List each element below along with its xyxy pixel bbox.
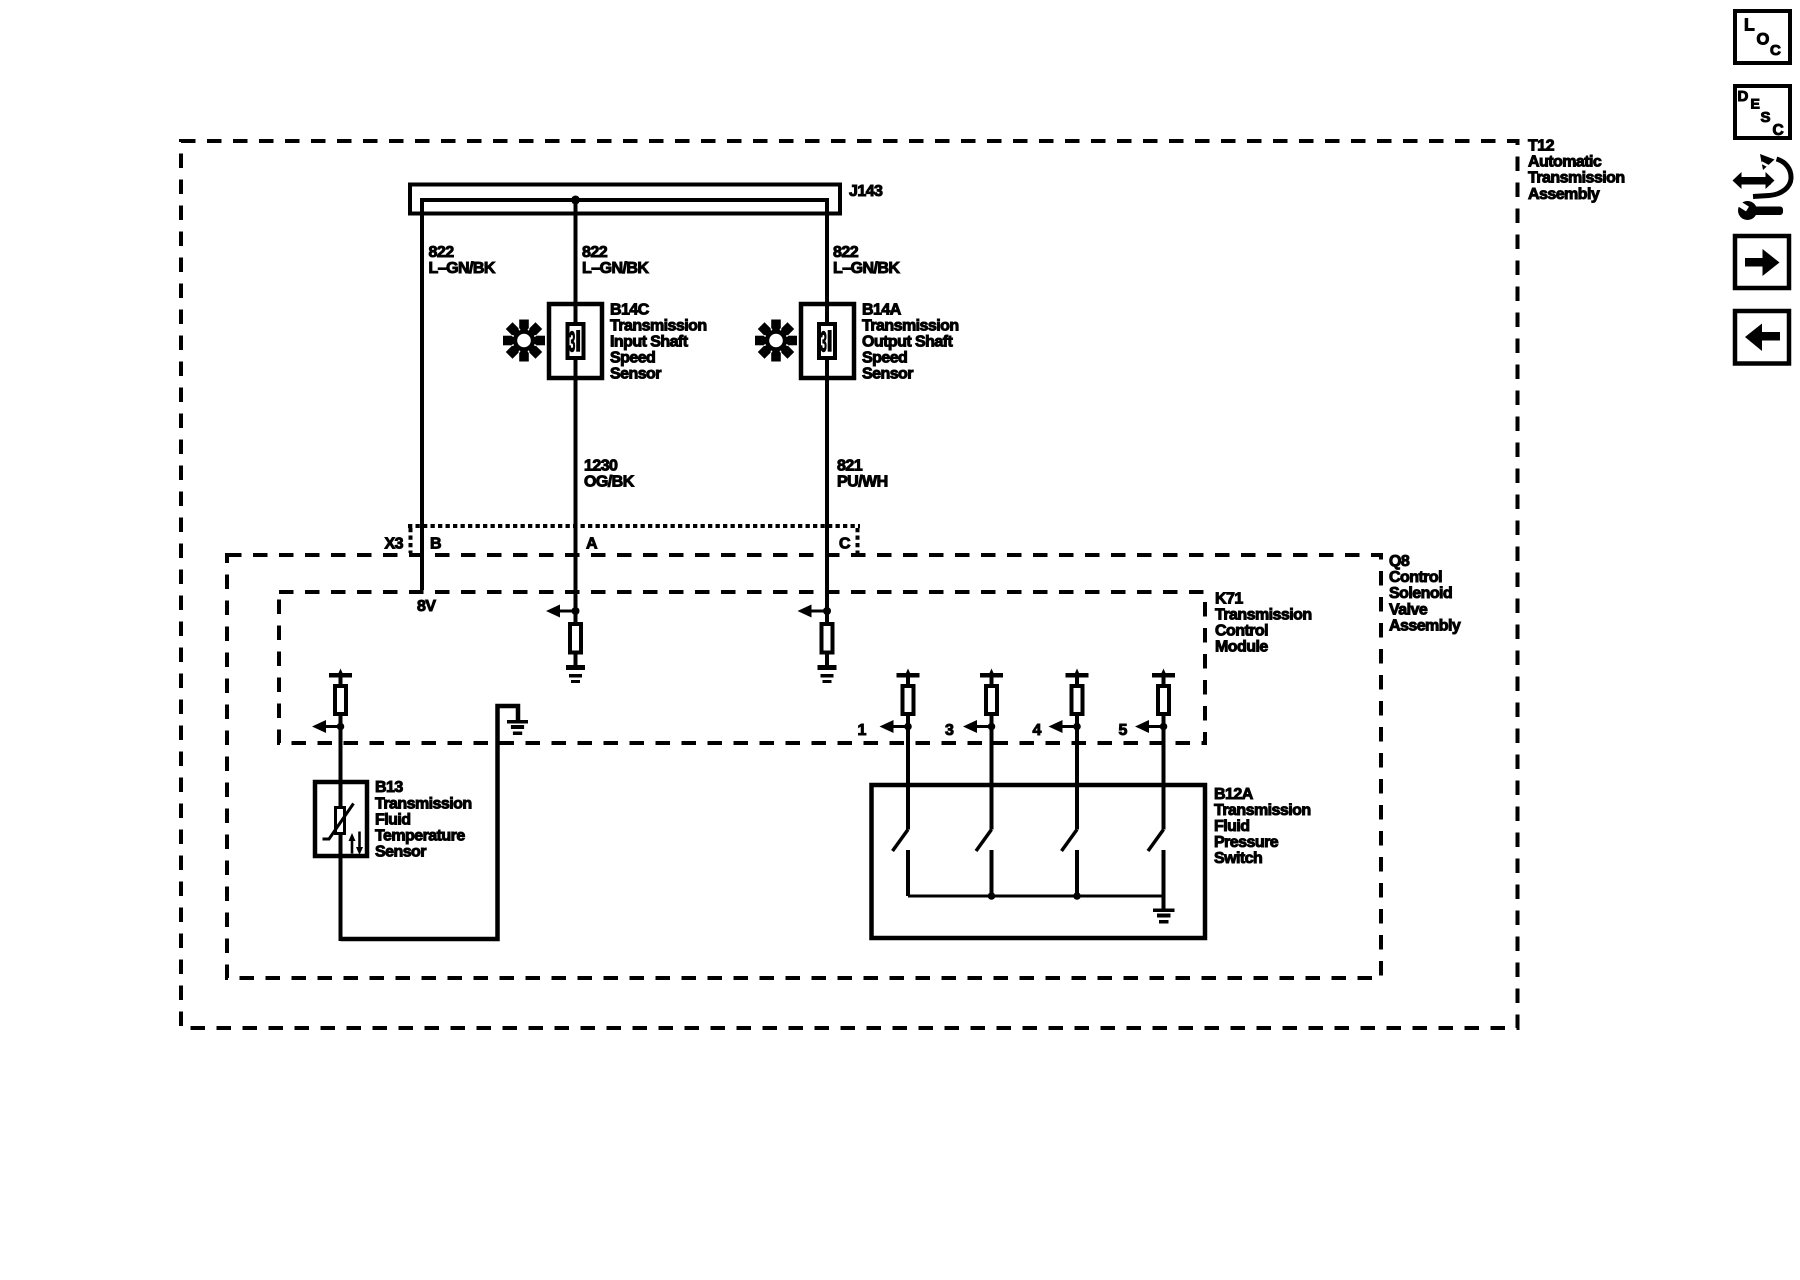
switch blade for pin 3 bbox=[976, 830, 992, 852]
up arrowhead bbox=[337, 669, 345, 678]
B13 Transmission Fluid Temperature Sensor box bbox=[315, 782, 367, 856]
forward navigation box (right arrow) bbox=[1735, 236, 1789, 288]
wire through B13 bbox=[339, 782, 343, 941]
B12A ground stub bbox=[1162, 896, 1166, 909]
wire from TCM pin 4 to B12A switch bbox=[1075, 727, 1079, 830]
wire bar-to-junction bbox=[1162, 678, 1166, 727]
junction dot bbox=[1160, 723, 1168, 731]
X3 connector right stub bbox=[856, 528, 860, 553]
X3 in-line connector dotted line bbox=[408, 524, 860, 528]
switch lower contact wire pin 5 bbox=[1162, 850, 1166, 896]
bus junction dot (pin 4) bbox=[1073, 892, 1081, 900]
svg-text:4: 4 bbox=[1033, 722, 1042, 739]
wire 822 (left, circuit B) bbox=[420, 200, 424, 590]
voltage terminal bar (pull-up top) at x=908 bbox=[897, 673, 920, 678]
TCM internal ground symbol bbox=[507, 720, 528, 724]
up arrowhead bbox=[1073, 669, 1081, 678]
svg-text:Sensor: Sensor bbox=[375, 844, 426, 861]
svg-text:A: A bbox=[586, 536, 598, 553]
voltage terminal bar (pull-up top) at x=1163.5 bbox=[1152, 673, 1175, 678]
ground symbol bbox=[818, 665, 837, 670]
svg-text:Transmission: Transmission bbox=[375, 795, 472, 812]
svg-text:3: 3 bbox=[569, 325, 576, 358]
svg-text:E: E bbox=[1751, 96, 1760, 112]
junction dot bbox=[904, 723, 912, 731]
svg-text:Transmission: Transmission bbox=[610, 317, 707, 334]
wire from TCM pin 1 to B12A switch bbox=[906, 727, 910, 830]
svg-text:C: C bbox=[1770, 42, 1781, 59]
up arrowhead bbox=[1160, 669, 1168, 678]
svg-text:Speed: Speed bbox=[862, 350, 907, 367]
up arrowhead bbox=[904, 669, 912, 678]
svg-text:L–GN/BK: L–GN/BK bbox=[429, 260, 496, 277]
B14A inner element box bbox=[819, 324, 835, 358]
back navigation box (left arrow) bbox=[1735, 311, 1789, 364]
DESC navigation box bbox=[1735, 86, 1790, 138]
svg-text:O: O bbox=[1757, 31, 1770, 49]
B14C pickup glyph bar bbox=[576, 330, 580, 352]
voltage terminal bar (pull-up top) at x=340.5 bbox=[329, 673, 352, 678]
svg-text:L–GN/BK: L–GN/BK bbox=[833, 260, 900, 277]
bus junction dot (pin 3) bbox=[988, 892, 996, 900]
junction dot bbox=[337, 723, 345, 731]
switch blade for pin 4 bbox=[1062, 830, 1078, 852]
symptoms icon: double arrow bbox=[1739, 177, 1771, 185]
svg-text:L–GN/BK: L–GN/BK bbox=[582, 260, 649, 277]
switch lower contact wire pin 4 bbox=[1075, 850, 1079, 896]
svg-text:C: C bbox=[1773, 122, 1784, 139]
svg-text:Sensor: Sensor bbox=[610, 366, 661, 383]
common bus wire inside B12A bbox=[908, 895, 1164, 898]
resistor (TCM internal) bbox=[1158, 686, 1169, 714]
ground symbol bbox=[566, 665, 585, 670]
svg-text:821: 821 bbox=[837, 457, 863, 474]
svg-text:B14A: B14A bbox=[862, 301, 902, 318]
wire 822 (right, to B14A) bbox=[825, 200, 829, 611]
wire bar-to-junction bbox=[1075, 678, 1079, 727]
resistor (TCM internal) bbox=[903, 686, 914, 714]
svg-text:Automatic: Automatic bbox=[1528, 154, 1602, 171]
B14A sensor box bbox=[801, 304, 854, 378]
J143 splice pack bus bar outer rect bbox=[410, 185, 840, 214]
resistor (TCM internal) bbox=[1072, 686, 1083, 714]
junction dot bbox=[1073, 723, 1081, 731]
svg-text:Control: Control bbox=[1389, 569, 1442, 586]
svg-text:OG/BK: OG/BK bbox=[584, 473, 635, 490]
svg-text:1: 1 bbox=[858, 722, 867, 739]
svg-text:B: B bbox=[430, 536, 441, 553]
svg-text:3: 3 bbox=[945, 722, 954, 739]
B14A pickup glyph bar bbox=[828, 330, 832, 352]
X3 connector left stub bbox=[409, 528, 413, 553]
svg-text:Fluid: Fluid bbox=[1214, 818, 1249, 835]
svg-text:Transmission: Transmission bbox=[1528, 170, 1625, 187]
B13 ground return wire bbox=[341, 706, 519, 939]
symptoms icon: wrench bbox=[1738, 201, 1757, 220]
thermistor diagonal stroke bbox=[323, 804, 354, 840]
svg-text:Pressure: Pressure bbox=[1214, 834, 1279, 851]
svg-text:Assembly: Assembly bbox=[1528, 186, 1600, 203]
svg-text:J143: J143 bbox=[849, 183, 883, 200]
svg-text:B14C: B14C bbox=[610, 301, 650, 318]
wire from TCM pin 3 to B12A switch bbox=[990, 727, 994, 830]
B14C sensor box bbox=[549, 304, 602, 378]
svg-text:Module: Module bbox=[1215, 639, 1268, 656]
signal arrow (points left) bbox=[325, 725, 341, 728]
svg-text:Transmission: Transmission bbox=[1214, 802, 1311, 819]
svg-text:T12: T12 bbox=[1528, 138, 1555, 155]
svg-text:Temperature: Temperature bbox=[375, 828, 465, 845]
svg-text:C: C bbox=[839, 536, 851, 553]
junction dot bbox=[823, 607, 831, 615]
signal arrow (points left) bbox=[560, 610, 576, 613]
svg-text:Solenoid: Solenoid bbox=[1389, 585, 1452, 602]
svg-text:Control: Control bbox=[1215, 623, 1268, 640]
signal arrow (points left) bbox=[1062, 725, 1078, 728]
switch lower contact wire pin 1 bbox=[906, 850, 910, 896]
junction dot bbox=[572, 607, 580, 615]
svg-text:5: 5 bbox=[1119, 722, 1128, 739]
symptoms icon: curved arrow outline bbox=[1753, 159, 1791, 197]
svg-text:Output Shaft: Output Shaft bbox=[862, 334, 953, 351]
svg-text:B12A: B12A bbox=[1214, 786, 1254, 803]
gear icon (B14A) bbox=[755, 320, 797, 362]
svg-text:8V: 8V bbox=[417, 598, 436, 615]
signal arrow (points left) bbox=[811, 610, 827, 613]
switch blade for pin 5 bbox=[1148, 830, 1164, 852]
svg-text:822: 822 bbox=[429, 244, 455, 261]
resistor (TCM internal) bbox=[986, 686, 997, 714]
svg-text:Transmission: Transmission bbox=[862, 317, 959, 334]
svg-text:Transmission: Transmission bbox=[1215, 606, 1312, 623]
svg-text:Input Shaft: Input Shaft bbox=[610, 334, 689, 351]
Q8 Control Solenoid Valve Assembly dashed box bbox=[227, 555, 1381, 978]
svg-text:Assembly: Assembly bbox=[1389, 617, 1461, 634]
wire 822 (middle, to B14C) bbox=[574, 200, 578, 611]
wire from TCM to B13 sensor bbox=[339, 727, 343, 783]
thermistor element bbox=[336, 808, 345, 834]
bidirectional arrows (down) bbox=[358, 832, 361, 849]
svg-text:Speed: Speed bbox=[610, 350, 655, 367]
wire bar-to-junction bbox=[990, 678, 994, 727]
signal arrow (points left) bbox=[976, 725, 992, 728]
resistor (TCM internal) bbox=[822, 624, 833, 653]
svg-text:1230: 1230 bbox=[584, 457, 618, 474]
wire bar-to-junction bbox=[906, 678, 910, 727]
svg-text:Valve: Valve bbox=[1389, 601, 1428, 618]
resistor (TCM internal) bbox=[335, 686, 346, 714]
junction dot on J143 bus bbox=[571, 196, 580, 205]
junction dot bbox=[988, 723, 996, 731]
svg-text:S: S bbox=[1761, 109, 1771, 126]
svg-text:Fluid: Fluid bbox=[375, 811, 410, 828]
signal arrow (points left) bbox=[893, 725, 909, 728]
svg-text:K71: K71 bbox=[1215, 590, 1243, 607]
LOC navigation box bbox=[1735, 11, 1790, 63]
svg-text:822: 822 bbox=[582, 244, 608, 261]
up arrowhead bbox=[988, 669, 996, 678]
svg-text:3: 3 bbox=[820, 325, 827, 358]
wire from TCM pin 5 to B12A switch bbox=[1162, 727, 1166, 830]
voltage terminal bar (pull-up top) at x=1077 bbox=[1066, 673, 1089, 678]
switch lower contact wire pin 3 bbox=[990, 850, 994, 896]
switch blade for pin 1 bbox=[893, 830, 909, 852]
B14C inner element box bbox=[568, 324, 584, 358]
svg-text:X3: X3 bbox=[385, 536, 404, 553]
wire junction-to-ground bbox=[574, 611, 578, 665]
B12A ground symbol bbox=[1153, 909, 1175, 913]
B12A Transmission Fluid Pressure Switch box bbox=[872, 785, 1206, 938]
svg-text:D: D bbox=[1738, 88, 1749, 105]
svg-text:L: L bbox=[1744, 15, 1755, 35]
svg-text:PU/WH: PU/WH bbox=[837, 473, 888, 490]
svg-text:Q8: Q8 bbox=[1389, 553, 1410, 570]
svg-text:822: 822 bbox=[833, 244, 859, 261]
svg-text:Switch: Switch bbox=[1214, 850, 1262, 867]
T12 Automatic Transmission Assembly dashed boundary box bbox=[181, 141, 1518, 1028]
gear icon (B14C) bbox=[503, 320, 545, 362]
voltage terminal bar (pull-up top) at x=991.5 bbox=[980, 673, 1003, 678]
svg-text:B13: B13 bbox=[375, 779, 403, 796]
resistor (TCM internal) bbox=[570, 624, 581, 653]
bidirectional arrows (up) bbox=[351, 839, 354, 854]
wire bar-to-junction bbox=[339, 678, 343, 727]
signal arrow (points left) bbox=[1148, 725, 1164, 728]
J143 bus inner line bbox=[420, 198, 829, 202]
svg-text:Sensor: Sensor bbox=[862, 366, 913, 383]
wire junction-to-ground bbox=[825, 611, 829, 665]
K71 Transmission Control Module dashed box bbox=[279, 592, 1205, 743]
